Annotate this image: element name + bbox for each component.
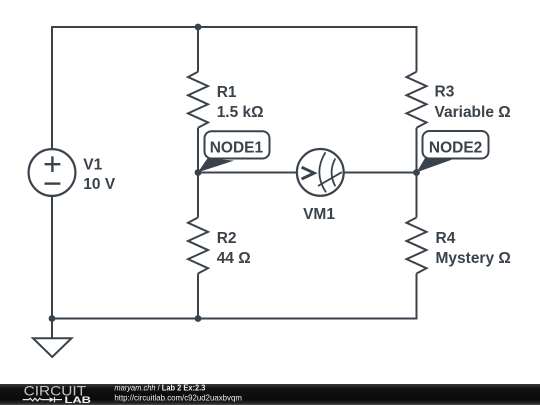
svg-text:NODE2: NODE2: [429, 139, 482, 156]
svg-text:V1: V1: [83, 157, 102, 174]
svg-text:1.5 kΩ: 1.5 kΩ: [217, 104, 264, 121]
junction NODE1: [195, 169, 202, 176]
footer bar: [0, 384, 540, 405]
svg-text:Mystery Ω: Mystery Ω: [436, 250, 511, 267]
wire bottom segment and right branch lower lead: [52, 274, 417, 319]
wire left branch lower: [51, 196, 53, 319]
svg-text:maryam.chh / Lab 2 Ex:2.3: maryam.chh / Lab 2 Ex:2.3: [114, 383, 205, 393]
wire top-left segment and left branch upper: [52, 27, 198, 149]
node NODE1 callout: [198, 131, 270, 172]
svg-text:R3: R3: [435, 84, 455, 101]
voltage source V1: [29, 149, 76, 196]
junction top middle: [195, 24, 202, 31]
wire middle branch below R2: [197, 274, 199, 319]
svg-text:R4: R4: [436, 230, 456, 247]
wire right branch R3 to NODE2: [416, 128, 418, 173]
node NODE2 callout: [417, 131, 489, 172]
wire middle branch R1 to NODE1: [197, 128, 199, 173]
voltmeter VM1: [297, 149, 344, 196]
svg-text:R1: R1: [217, 84, 237, 101]
resistor R1: [188, 72, 208, 128]
CircuitLab logo squiggle and diode: [23, 397, 62, 402]
wire middle branch above R1: [197, 27, 199, 72]
wire middle branch NODE1 to R2: [197, 173, 199, 218]
junction NODE2: [413, 169, 420, 176]
svg-text:http://circuitlab.com/c92ud2ua: http://circuitlab.com/c92ud2uaxbvqm: [114, 392, 242, 402]
svg-text:10 V: 10 V: [83, 176, 116, 193]
junction bottom middle: [195, 315, 202, 322]
svg-text:LAB: LAB: [65, 395, 92, 405]
resistor R4: [407, 218, 427, 274]
resistor R3: [407, 72, 427, 128]
svg-text:Variable Ω: Variable Ω: [435, 104, 511, 121]
wire top-right segment and right branch upper lead: [198, 27, 417, 72]
wire voltmeter to NODE2: [344, 172, 417, 174]
wire right branch NODE2 to R4: [416, 173, 418, 218]
resistor R2: [188, 218, 208, 274]
svg-text:44 Ω: 44 Ω: [217, 250, 251, 267]
junction bottom left (ground tap): [49, 315, 56, 322]
ground: [33, 319, 72, 358]
svg-text:R2: R2: [217, 230, 237, 247]
svg-text:NODE1: NODE1: [210, 139, 264, 156]
svg-text:VM1: VM1: [303, 206, 335, 223]
wire NODE1 to voltmeter: [198, 172, 297, 174]
